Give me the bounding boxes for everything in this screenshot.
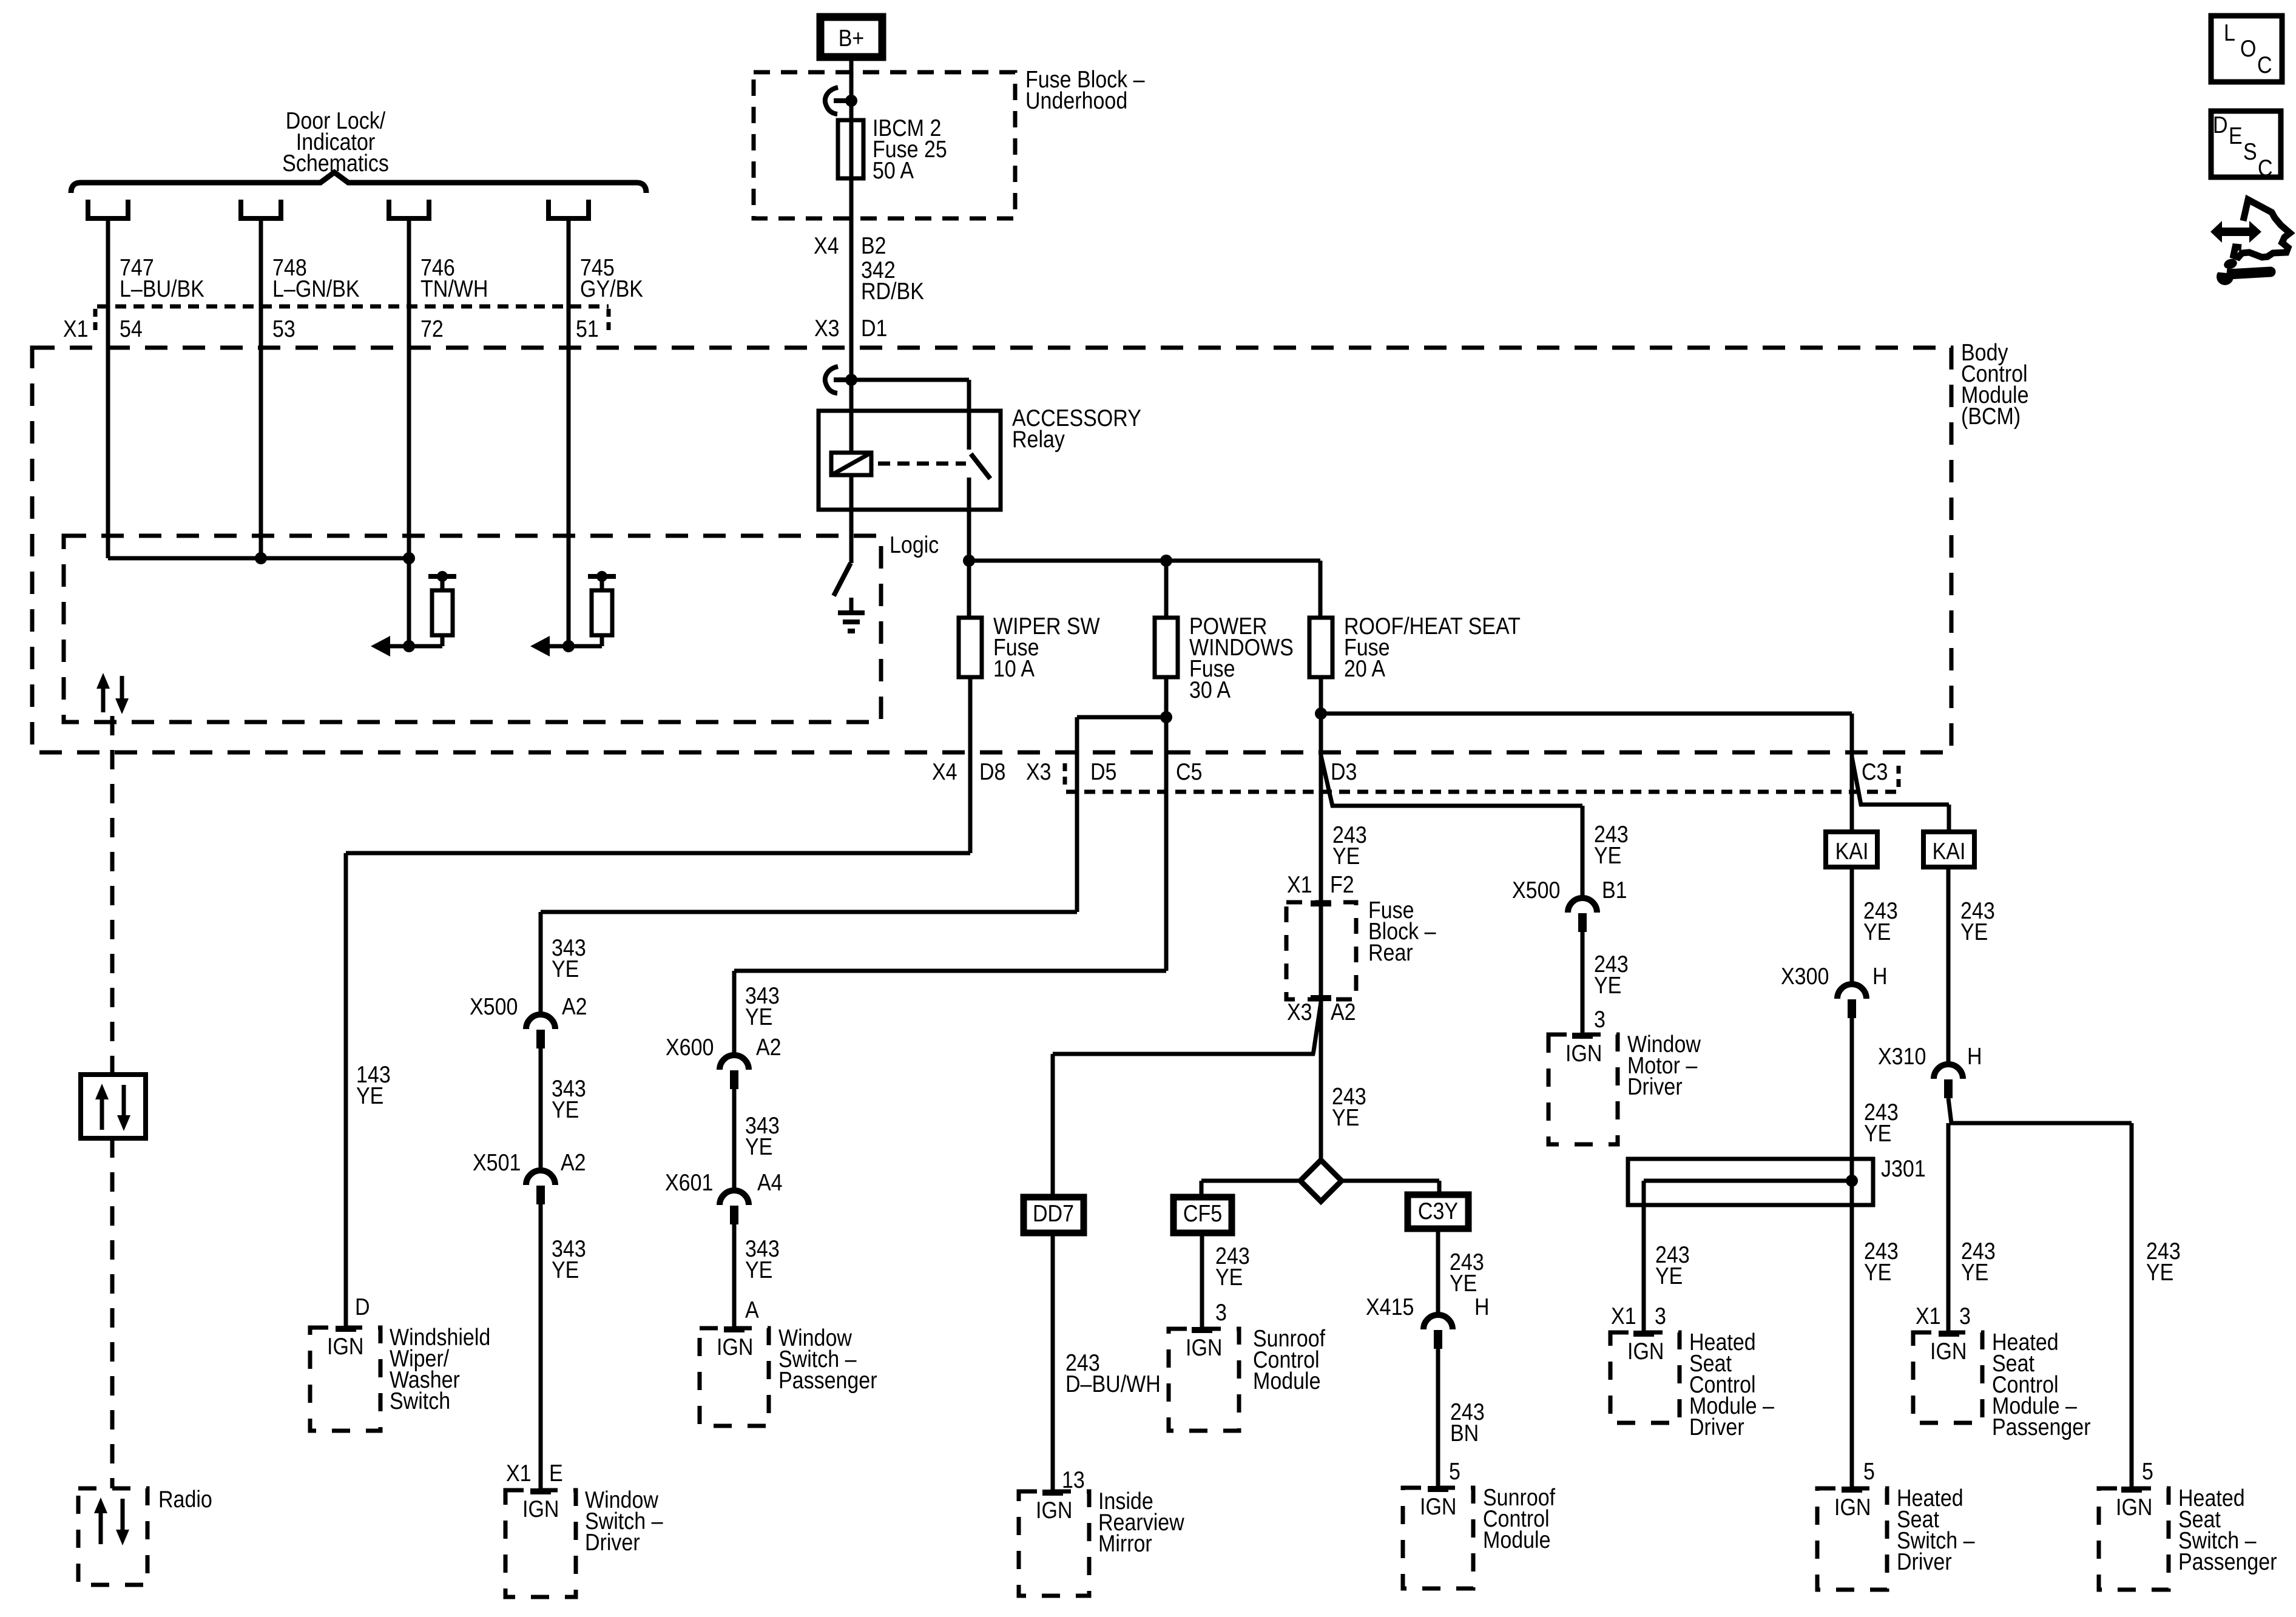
svg-text:YE: YE	[745, 1133, 772, 1160]
svg-text:5: 5	[1863, 1458, 1875, 1485]
wire 243 BN to sunroof control module	[1436, 1349, 1440, 1488]
svg-text:3: 3	[1215, 1299, 1227, 1326]
Body Control Module (BCM) dashed box	[32, 348, 1951, 752]
svg-text:IGN: IGN	[717, 1334, 753, 1360]
svg-text:L–BU/BK: L–BU/BK	[120, 275, 204, 302]
terminal U symbol wire 746	[389, 200, 429, 218]
svg-text:X1: X1	[506, 1460, 532, 1487]
Inside Rearview Mirror box	[1019, 1491, 1089, 1596]
Fuse Block - Underhood dashed box	[754, 72, 1015, 218]
wire X310 to heated seat control module passenger	[1947, 1123, 1951, 1332]
svg-text:YE: YE	[745, 1257, 772, 1283]
svg-text:53: 53	[272, 316, 295, 342]
Sunroof Control Module box	[1169, 1329, 1239, 1431]
LOC legend box	[2211, 16, 2282, 82]
svg-text:C3Y: C3Y	[1418, 1198, 1458, 1224]
in-line connector DD7	[1024, 1197, 1084, 1233]
svg-text:YE: YE	[2146, 1259, 2173, 1286]
svg-text:IGN: IGN	[522, 1496, 559, 1522]
connector X3 right tick	[1897, 766, 1901, 790]
service icon double arrow	[2210, 221, 2261, 243]
clip terminal at fuse feed	[825, 87, 838, 114]
svg-text:13: 13	[1062, 1467, 1085, 1493]
svg-text:GY/BK: GY/BK	[580, 275, 643, 302]
wire 243 YE branch to X500 B1	[1321, 755, 1582, 806]
svg-text:YE: YE	[1655, 1263, 1683, 1289]
connector X1 right tick	[607, 309, 611, 332]
svg-text:IGN: IGN	[1834, 1494, 1871, 1521]
svg-text:X1: X1	[1611, 1303, 1636, 1329]
svg-text:CF5: CF5	[1183, 1200, 1222, 1227]
connector X1 dotted line	[97, 305, 609, 309]
svg-text:Switch: Switch	[390, 1388, 450, 1414]
svg-text:Driver: Driver	[1627, 1073, 1683, 1100]
svg-text:YE: YE	[1864, 1259, 1891, 1286]
svg-text:X4: X4	[932, 758, 957, 785]
svg-text:D8: D8	[979, 758, 1005, 785]
wire 243 YE to sunroof control module	[1200, 1233, 1204, 1329]
wire 747 vertical	[106, 220, 110, 558]
svg-text:YE: YE	[356, 1082, 383, 1109]
svg-text:H: H	[1872, 963, 1888, 990]
svg-text:A: A	[745, 1297, 759, 1323]
svg-text:C: C	[2257, 52, 2272, 78]
terminal U symbol wire 747	[88, 200, 128, 218]
svg-text:D: D	[355, 1294, 370, 1320]
svg-text:YE: YE	[1594, 972, 1621, 999]
brace for Door Lock/Indicator Schematics	[71, 172, 646, 193]
wire from relay coil to logic switch	[849, 475, 854, 563]
svg-text:YE: YE	[1961, 1259, 1988, 1286]
svg-text:F2: F2	[1330, 871, 1354, 898]
terminal U symbol wire 745	[549, 200, 589, 218]
svg-text:E: E	[549, 1460, 563, 1487]
relay switched output wire	[967, 478, 971, 561]
resistor R1	[409, 644, 442, 649]
wire 745 vertical	[567, 220, 571, 646]
svg-text:X600: X600	[666, 1034, 714, 1061]
wire relay feed to switch side	[851, 378, 969, 382]
up/down arrow symbol (door lock logic)	[101, 686, 106, 712]
svg-text:Passenger: Passenger	[778, 1367, 877, 1394]
wire BCM internal feed to pin C3	[1321, 712, 1852, 716]
fuse ROOF/HEAT SEAT 20A	[1309, 618, 1332, 677]
wire 343 YE branch C5 to X600	[734, 969, 1166, 973]
svg-text:3: 3	[1594, 1006, 1606, 1033]
wire diamond to CF5	[1201, 1179, 1300, 1183]
svg-text:YE: YE	[745, 1004, 772, 1030]
connector X1 left tick	[93, 309, 98, 332]
svg-text:X3: X3	[1026, 758, 1052, 785]
serial data arrows box	[81, 1075, 146, 1138]
svg-text:20 A: 20 A	[1344, 655, 1386, 682]
svg-text:X601: X601	[665, 1169, 713, 1196]
relay coil	[831, 453, 871, 475]
ACCESSORY Relay box	[819, 411, 1001, 510]
terminal U symbol wire 748	[241, 200, 281, 218]
svg-text:YE: YE	[552, 1257, 579, 1283]
Windshield Wiper/Washer Switch box	[310, 1328, 380, 1431]
svg-text:IGN: IGN	[1036, 1497, 1072, 1524]
splice pack J301	[1628, 1159, 1873, 1205]
svg-text:IGN: IGN	[1565, 1040, 1602, 1067]
clip terminal at relay feed	[825, 366, 838, 393]
svg-text:A2: A2	[756, 1034, 782, 1061]
Window Switch - Driver box	[505, 1490, 576, 1597]
svg-text:H: H	[1474, 1294, 1490, 1320]
svg-text:X4: X4	[814, 232, 839, 259]
svg-text:Driver: Driver	[1689, 1414, 1744, 1440]
relay contact blade	[971, 454, 990, 479]
wire 343 YE branch D5 to X500	[541, 910, 1077, 914]
svg-text:D1: D1	[861, 315, 887, 342]
svg-text:B+: B+	[839, 25, 865, 52]
svg-text:C5: C5	[1176, 758, 1202, 785]
wire branch to DD7	[1053, 1002, 1321, 1054]
wire 342 from B+	[849, 57, 854, 453]
svg-text:5: 5	[1449, 1458, 1460, 1485]
Heated Seat Control Module - Passenger box	[1913, 1332, 1982, 1423]
DESC legend box	[2211, 111, 2281, 177]
wire ROOF/HEAT SEAT fuse output	[1319, 677, 1323, 714]
svg-text:IGN: IGN	[2116, 1494, 2152, 1521]
Radio dashed box	[78, 1488, 147, 1585]
svg-text:IGN: IGN	[1420, 1493, 1456, 1520]
svg-text:YE: YE	[1332, 1104, 1359, 1131]
svg-text:X1: X1	[63, 316, 89, 342]
svg-text:3: 3	[1655, 1303, 1666, 1329]
B+ battery feed box	[820, 17, 882, 57]
svg-text:Logic: Logic	[890, 532, 939, 558]
wire 746 lower segment to splice	[407, 558, 411, 646]
wire fuse supply bus	[969, 559, 1320, 563]
svg-text:YE: YE	[1450, 1270, 1477, 1297]
svg-text:A2: A2	[562, 993, 587, 1020]
Fuse Block - Rear dashed box	[1286, 902, 1356, 999]
svg-text:Underhood: Underhood	[1025, 87, 1127, 114]
svg-text:30 A: 30 A	[1189, 677, 1231, 703]
svg-text:YE: YE	[1960, 919, 1988, 945]
svg-text:YE: YE	[1594, 842, 1621, 869]
svg-text:10 A: 10 A	[993, 655, 1035, 682]
wire to POWER WINDOWS fuse	[1164, 561, 1169, 618]
svg-text:X500: X500	[1512, 877, 1560, 903]
logic switch blade	[834, 563, 851, 596]
svg-text:A4: A4	[757, 1169, 783, 1196]
svg-text:IGN: IGN	[1930, 1338, 1967, 1365]
svg-text:X500: X500	[470, 993, 518, 1020]
wire 243 YE below KAI 2	[1947, 867, 1951, 1064]
svg-text:BN: BN	[1450, 1420, 1479, 1447]
Heated Seat Switch - Passenger box	[2099, 1488, 2169, 1590]
svg-text:D3: D3	[1331, 758, 1357, 785]
svg-text:KAI: KAI	[1835, 838, 1869, 865]
wire POWER WINDOWS fuse output	[1164, 677, 1169, 971]
svg-text:X3: X3	[814, 315, 840, 342]
svg-text:KAI: KAI	[1933, 838, 1966, 865]
svg-text:50 A: 50 A	[873, 157, 914, 184]
fuse POWER WINDOWS 30A	[1155, 618, 1178, 677]
svg-text:X310: X310	[1878, 1043, 1926, 1070]
svg-text:5: 5	[2142, 1458, 2153, 1485]
splice diamond	[1300, 1160, 1342, 1201]
svg-text:72: 72	[420, 316, 444, 342]
fuse WIPER SW 10A	[959, 618, 982, 677]
Window Switch - Passenger box	[700, 1328, 769, 1426]
resistor R2	[569, 644, 602, 649]
wire diamond to C3Y	[1342, 1179, 1439, 1183]
svg-text:IGN: IGN	[1627, 1338, 1664, 1365]
svg-text:Driver: Driver	[1897, 1548, 1952, 1575]
in-line connector CF5	[1173, 1197, 1232, 1233]
fuse IBCM 2 Fuse 25 50 A	[838, 120, 863, 178]
wire 746 vertical	[407, 220, 411, 558]
wire branch C3 to KAI 2	[1852, 757, 1949, 805]
svg-text:(BCM): (BCM)	[1961, 403, 2021, 430]
in-line connector KAI 2	[1923, 832, 1974, 867]
svg-text:C3: C3	[1862, 758, 1888, 785]
svg-text:D–BU/WH: D–BU/WH	[1065, 1371, 1161, 1397]
wire branch X310 to heated seat switch passenger	[1948, 1098, 2132, 1123]
svg-text:IGN: IGN	[327, 1333, 363, 1360]
svg-text:J301: J301	[1881, 1155, 1926, 1182]
svg-text:Radio: Radio	[158, 1486, 212, 1513]
svg-text:RD/BK: RD/BK	[861, 278, 924, 305]
svg-text:X415: X415	[1366, 1294, 1414, 1320]
svg-text:TN/WH: TN/WH	[420, 275, 488, 302]
wire dashed serial data to radio	[110, 716, 115, 1075]
svg-text:B1: B1	[1602, 877, 1627, 903]
svg-text:Module: Module	[1253, 1368, 1321, 1394]
svg-text:S: S	[2243, 138, 2257, 165]
svg-text:X501: X501	[473, 1149, 521, 1176]
svg-text:L–GN/BK: L–GN/BK	[272, 275, 360, 302]
wire 748 vertical	[259, 220, 263, 558]
svg-text:DD7: DD7	[1033, 1200, 1074, 1227]
svg-text:YE: YE	[552, 1096, 579, 1123]
svg-text:54: 54	[120, 316, 143, 342]
svg-text:D5: D5	[1090, 758, 1116, 785]
connector X3 left tick	[1063, 763, 1067, 788]
svg-text:YE: YE	[1864, 1120, 1891, 1147]
svg-text:H: H	[1967, 1043, 1982, 1070]
splice arrow R1	[388, 644, 408, 649]
BCM inner function dashed box	[64, 536, 881, 722]
svg-text:O: O	[2240, 35, 2256, 62]
wire WIPER SW fuse output	[968, 677, 973, 853]
svg-text:IGN: IGN	[1186, 1334, 1222, 1361]
svg-text:3: 3	[1959, 1303, 1971, 1329]
wire 243 YE below KAI 1	[1850, 867, 1854, 984]
wire to WIPER SW fuse	[967, 561, 971, 618]
svg-text:C: C	[2258, 155, 2273, 181]
service icon car door outline	[2234, 200, 2290, 257]
Heated Seat Control Module - Driver box	[1610, 1332, 1680, 1423]
svg-text:A2: A2	[561, 1149, 586, 1176]
svg-text:Relay: Relay	[1012, 426, 1065, 453]
in-line connector KAI 1	[1826, 832, 1877, 867]
svg-text:51: 51	[576, 316, 599, 342]
wire J301 to heated seat control module driver	[1642, 1181, 1646, 1332]
svg-text:X1: X1	[1287, 871, 1312, 898]
svg-text:Driver: Driver	[585, 1529, 640, 1556]
svg-text:Rear: Rear	[1368, 939, 1413, 966]
svg-text:Passenger: Passenger	[2178, 1548, 2277, 1575]
svg-text:A2: A2	[1331, 999, 1356, 1025]
svg-text:YE: YE	[1863, 919, 1891, 945]
svg-text:B2: B2	[861, 232, 886, 259]
wire 143 YE to wiper switch	[346, 851, 970, 856]
svg-text:X300: X300	[1781, 963, 1829, 990]
Sunroof Control Module box 2	[1403, 1488, 1473, 1588]
in-line connector C3Y	[1408, 1195, 1468, 1229]
wire to ROOF/HEAT SEAT fuse	[1319, 561, 1323, 618]
splice arrow R2	[547, 644, 568, 649]
svg-text:YE: YE	[552, 956, 579, 982]
svg-text:D: D	[2213, 112, 2228, 138]
svg-text:X3: X3	[1287, 999, 1312, 1025]
wire dashed to radio	[110, 1138, 115, 1488]
wire pin D3 down to fuse block rear	[1319, 714, 1323, 1161]
svg-text:Mirror: Mirror	[1098, 1530, 1152, 1557]
svg-text:YE: YE	[1332, 843, 1360, 869]
wire bus joining 747/748/746	[108, 556, 409, 561]
wire branch to pin D5	[1077, 715, 1166, 720]
svg-text:E: E	[2229, 123, 2243, 149]
svg-text:L: L	[2224, 19, 2235, 46]
svg-text:X1: X1	[1916, 1303, 1941, 1329]
svg-text:Module: Module	[1483, 1527, 1551, 1553]
wire 243 YE to X415	[1436, 1229, 1440, 1315]
service icon wrench	[2223, 257, 2238, 271]
Heated Seat Switch - Driver box	[1817, 1488, 1887, 1590]
connector X3 dotted line	[1066, 790, 1899, 794]
svg-text:Passenger: Passenger	[1992, 1414, 2091, 1440]
wire 243 D-BU/WH to mirror	[1051, 1233, 1055, 1491]
ground symbol	[849, 598, 854, 613]
relay coil-contact dashed link	[878, 462, 966, 466]
svg-text:YE: YE	[1215, 1264, 1243, 1291]
Window Motor - Driver box	[1548, 1035, 1618, 1144]
